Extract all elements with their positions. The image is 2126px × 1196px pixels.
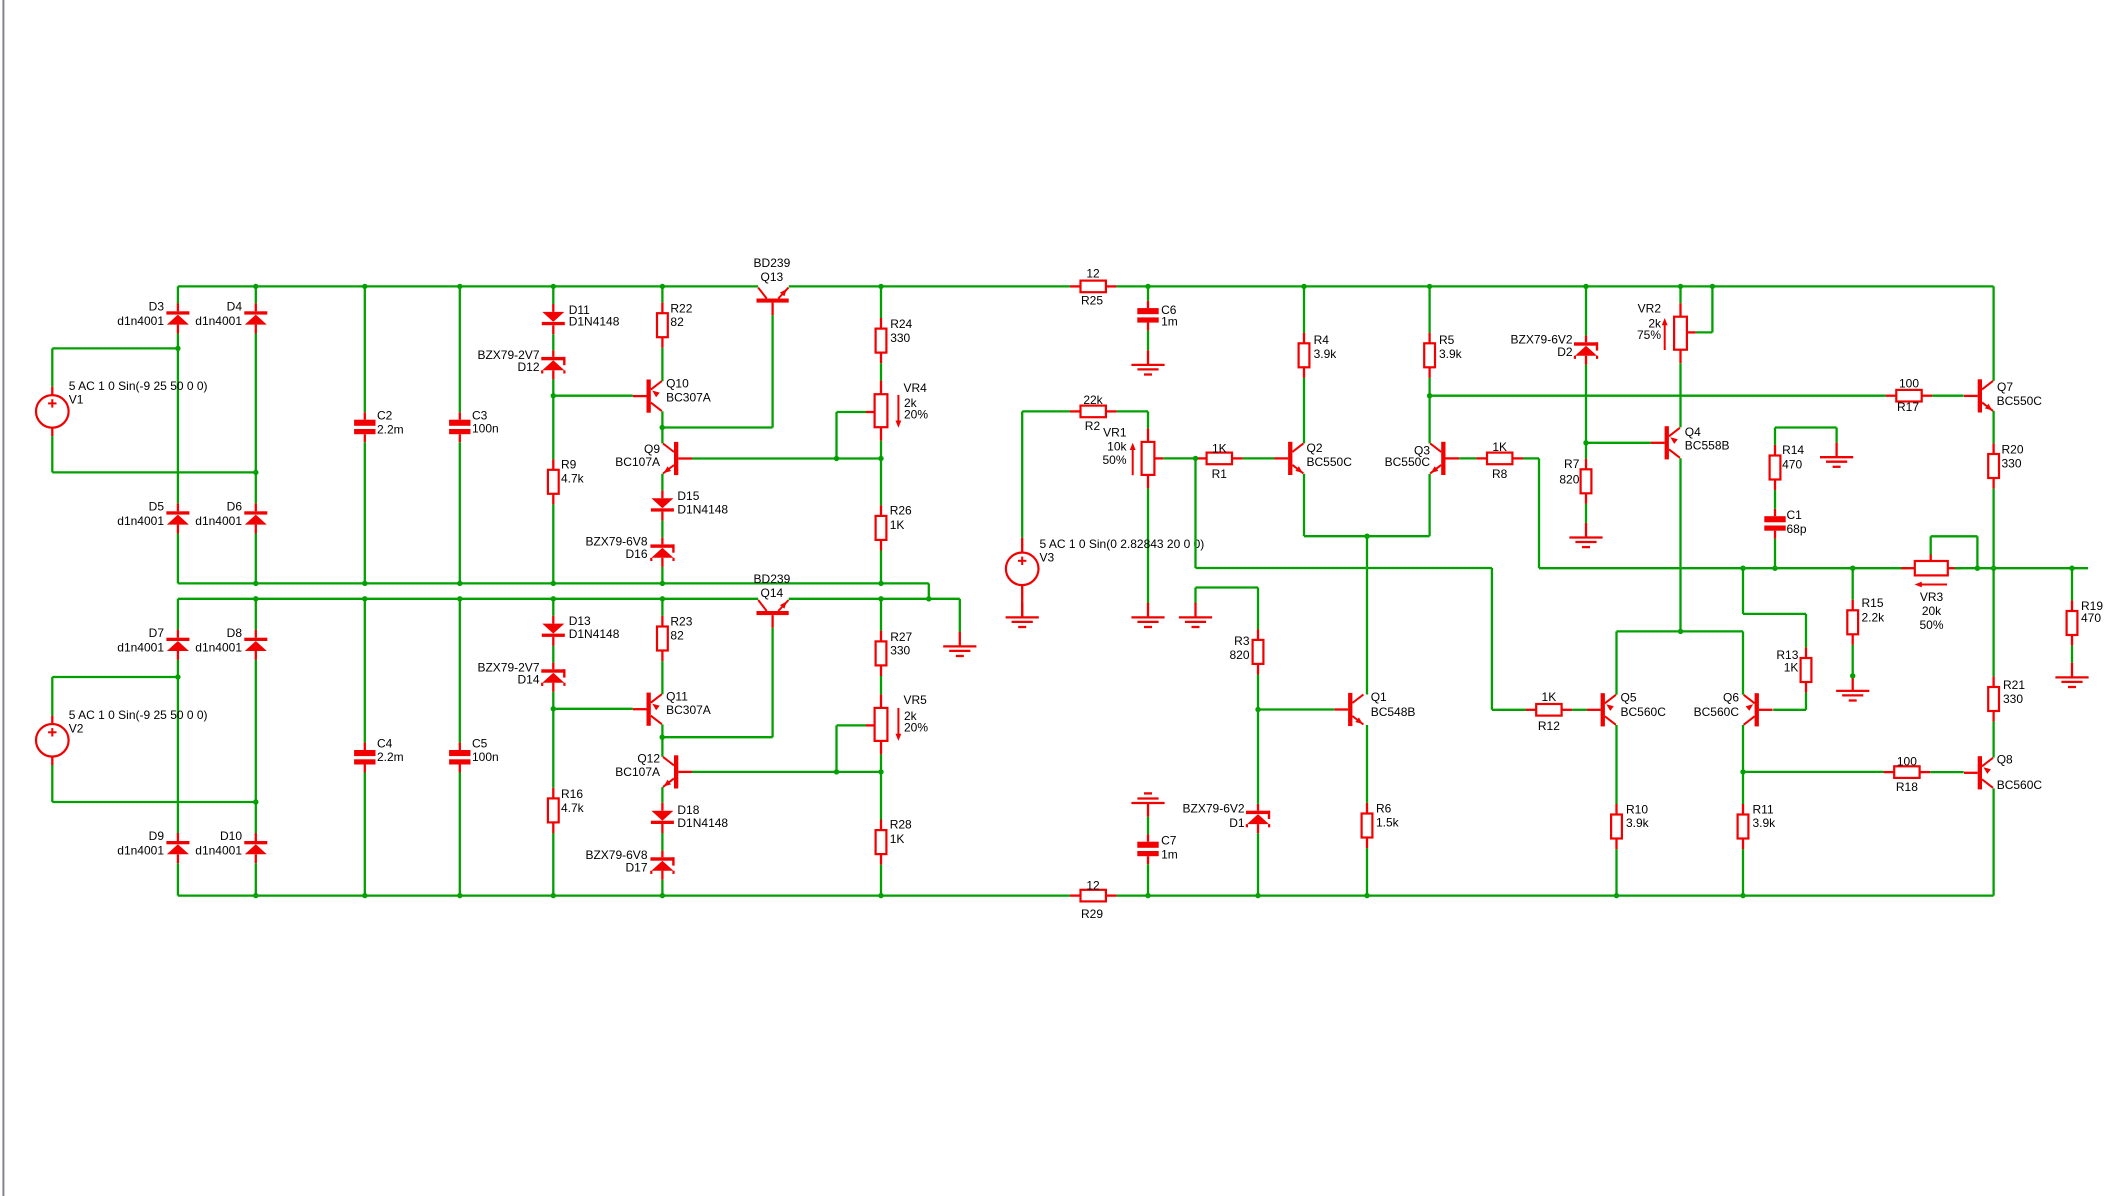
resistor R2 bbox=[1070, 393, 1117, 433]
wire R15 bottom bbox=[1852, 645, 1854, 676]
junction J55 bbox=[1740, 566, 1745, 571]
wire bottom rail right bbox=[1117, 894, 1994, 896]
resistor R24 bbox=[876, 317, 913, 363]
transistor Q1 bbox=[1334, 690, 1415, 726]
wire Q11-junction bbox=[661, 724, 663, 737]
wire drive node drop bbox=[1194, 458, 1196, 568]
svg-text:3.9k: 3.9k bbox=[1439, 347, 1463, 361]
resistor R20 bbox=[1988, 443, 2024, 489]
wire R27 top bbox=[880, 599, 882, 631]
junction J7 bbox=[1145, 284, 1150, 289]
zener D1 bbox=[1183, 802, 1271, 834]
svg-text:R7: R7 bbox=[1564, 457, 1580, 471]
svg-text:BC107A: BC107A bbox=[615, 455, 660, 469]
wire D12-R9 bbox=[552, 379, 554, 459]
svg-text:VR5: VR5 bbox=[904, 693, 928, 707]
svg-text:d1n4001: d1n4001 bbox=[117, 640, 164, 654]
transistor Q11 bbox=[633, 690, 711, 726]
junction J12 bbox=[1710, 284, 1715, 289]
junction J43 bbox=[878, 893, 883, 898]
wire D15-D16 bbox=[661, 521, 663, 538]
svg-text:BC307A: BC307A bbox=[666, 703, 711, 717]
wire VR5 wiper wire bbox=[837, 724, 867, 726]
svg-text:D17: D17 bbox=[625, 861, 647, 875]
resistor R16 bbox=[548, 787, 585, 833]
junction J6 bbox=[878, 284, 883, 289]
wire R13-Q6 base bbox=[1773, 709, 1806, 711]
potentiometer VR1 bbox=[1102, 426, 1163, 489]
resistor R5 bbox=[1424, 333, 1462, 378]
wire R4 top bbox=[1303, 286, 1305, 332]
wire drive to R12 bbox=[1492, 709, 1526, 711]
potentiometer VR3 bbox=[1901, 554, 1961, 633]
svg-text:D1N4148: D1N4148 bbox=[569, 315, 620, 329]
junction J51 bbox=[1583, 440, 1588, 445]
junction J61 bbox=[1740, 769, 1745, 774]
capacitor C5 bbox=[449, 737, 499, 773]
wire R3 hook drop bbox=[1257, 588, 1259, 630]
diode D13 bbox=[542, 614, 620, 646]
svg-text:BC560C: BC560C bbox=[1997, 778, 2043, 792]
wire D11 top bbox=[552, 286, 554, 304]
wire Q6 emitter rise bbox=[1742, 631, 1744, 694]
svg-text:12: 12 bbox=[1086, 879, 1100, 893]
transistor Q14 bbox=[754, 572, 791, 628]
diode D9 bbox=[117, 829, 189, 863]
wire VR4-R26 bbox=[880, 459, 882, 506]
svg-text:BC307A: BC307A bbox=[666, 390, 711, 404]
svg-text:4.7k: 4.7k bbox=[561, 801, 585, 815]
svg-text:D8: D8 bbox=[227, 626, 243, 640]
svg-text:BC550C: BC550C bbox=[1307, 455, 1353, 469]
svg-text:R14: R14 bbox=[1782, 443, 1804, 457]
wire R2 right bbox=[1117, 410, 1148, 412]
svg-text:R26: R26 bbox=[890, 504, 912, 518]
junction J48 bbox=[1740, 893, 1745, 898]
junction J39 bbox=[362, 893, 367, 898]
wire V1 plus drop bbox=[51, 348, 53, 386]
wire VR2 wiper rise bbox=[1711, 286, 1713, 332]
wire V1 minus drop bbox=[51, 436, 53, 472]
svg-text:12: 12 bbox=[1086, 267, 1100, 281]
junction J1 bbox=[253, 284, 258, 289]
transistor Q6 bbox=[1694, 691, 1773, 727]
svg-text:330: 330 bbox=[2003, 692, 2023, 706]
junction J59 bbox=[1991, 566, 1996, 571]
ground R14 ground bbox=[1820, 443, 1853, 467]
svg-text:R17: R17 bbox=[1897, 400, 1919, 414]
diode D18 bbox=[651, 803, 729, 833]
wire D2 top bbox=[1585, 286, 1587, 335]
resistor R19 bbox=[2067, 599, 2104, 646]
ground R7 ground bbox=[1569, 523, 1602, 547]
capacitor C7 bbox=[1137, 834, 1177, 865]
wire node-Q3 collector bbox=[1428, 396, 1430, 444]
wire R22 top bbox=[661, 286, 663, 302]
svg-text:R10: R10 bbox=[1626, 803, 1648, 817]
wire Q9 base wire bbox=[692, 457, 881, 459]
svg-text:R15: R15 bbox=[1862, 596, 1884, 610]
svg-text:Q11: Q11 bbox=[666, 690, 688, 704]
wire V2 plus wire bbox=[52, 676, 178, 678]
ground R3 ground bbox=[1179, 603, 1212, 627]
wire R2 left corner bbox=[1022, 410, 1070, 412]
wire R24-VR4 bbox=[880, 363, 882, 381]
wire R18-Q8 bbox=[1930, 771, 1964, 773]
svg-text:C1: C1 bbox=[1787, 508, 1803, 522]
wire D13-D14 bbox=[552, 646, 554, 663]
zener D2 bbox=[1511, 333, 1599, 365]
wire C7 top link bbox=[1147, 817, 1149, 835]
svg-text:22k: 22k bbox=[1083, 393, 1103, 407]
wire Q6 collector drop bbox=[1742, 725, 1744, 772]
wire R1-Q2 bbox=[1243, 457, 1275, 459]
svg-text:100n: 100n bbox=[472, 750, 499, 764]
diode D10 bbox=[195, 829, 267, 863]
wire mid rail link bbox=[928, 583, 930, 598]
junction J58 bbox=[1975, 566, 1980, 571]
wire output bus bbox=[1539, 567, 1908, 569]
svg-text:20%: 20% bbox=[904, 407, 928, 421]
wire C1-R14 bbox=[1774, 490, 1776, 509]
resistor R15 bbox=[1847, 596, 1885, 645]
wire V3 bottom red bbox=[1021, 593, 1023, 618]
zener D16 bbox=[585, 535, 674, 567]
svg-text:D4: D4 bbox=[227, 300, 243, 314]
wire mirror top bbox=[1617, 630, 1744, 632]
wire VR2-Q4 emitter bbox=[1679, 363, 1681, 427]
wire Q9-D15 bbox=[661, 474, 663, 491]
wire VR5-R28 bbox=[880, 772, 882, 820]
wire R28 bottom bbox=[880, 865, 882, 896]
svg-text:R9: R9 bbox=[561, 458, 577, 472]
svg-text:330: 330 bbox=[890, 643, 910, 657]
svg-text:V2: V2 bbox=[69, 721, 84, 735]
junction J9 bbox=[1427, 284, 1432, 289]
wire R24 top bbox=[880, 286, 882, 318]
wire VR1 bottom bbox=[1147, 488, 1149, 603]
wire V2 plus drop bbox=[51, 677, 53, 716]
svg-text:d1n4001: d1n4001 bbox=[117, 314, 164, 328]
svg-text:R5: R5 bbox=[1439, 333, 1455, 347]
wire Q10-junction bbox=[661, 411, 663, 427]
svg-text:82: 82 bbox=[670, 628, 684, 642]
resistor R18 bbox=[1884, 754, 1931, 794]
svg-text:D7: D7 bbox=[149, 626, 165, 640]
wire C1 bottom link bbox=[1774, 539, 1776, 569]
wire lower top rail right bbox=[789, 598, 960, 600]
svg-text:C4: C4 bbox=[377, 737, 393, 751]
wire R3 hook bbox=[1196, 586, 1259, 588]
svg-text:C2: C2 bbox=[377, 409, 393, 423]
junction J42 bbox=[660, 893, 665, 898]
wire R20 bottom bbox=[1992, 489, 1994, 569]
transistor Q8 bbox=[1964, 753, 2042, 792]
voltage source V2 bbox=[36, 708, 208, 765]
junction J3 bbox=[457, 284, 462, 289]
wire drive wire bbox=[1196, 567, 1492, 569]
junction J41 bbox=[551, 893, 556, 898]
wire D8-D10 column top bbox=[255, 599, 257, 630]
svg-text:470: 470 bbox=[2081, 611, 2101, 625]
wire D1 top bbox=[1257, 710, 1259, 804]
junction J18 bbox=[878, 456, 883, 461]
junction J37 bbox=[878, 769, 883, 774]
zener D14 bbox=[477, 661, 565, 692]
voltage source V3 bbox=[1006, 537, 1204, 594]
wire D2-R7 bbox=[1585, 365, 1587, 459]
wire R2-VR1 bbox=[1147, 411, 1149, 428]
wire R16 bottom bbox=[552, 833, 554, 896]
svg-text:820: 820 bbox=[1559, 473, 1579, 487]
wire top rail to Q7 bbox=[1117, 285, 1994, 287]
wire D4-D6 column top bbox=[255, 286, 257, 303]
resistor R17 bbox=[1886, 377, 1933, 414]
ground R15 ground bbox=[1836, 676, 1869, 700]
wire Q6-R11 bbox=[1742, 772, 1744, 805]
svg-text:R24: R24 bbox=[890, 317, 912, 331]
svg-text:1K: 1K bbox=[1492, 440, 1507, 454]
wire V2 minus drop bbox=[51, 765, 53, 802]
diode D7 bbox=[117, 626, 189, 660]
wire R14 top link bbox=[1775, 426, 1837, 428]
wire R13 bottom bbox=[1805, 693, 1807, 710]
wire feedback wire bbox=[1743, 771, 1884, 773]
resistor R12 bbox=[1526, 690, 1573, 733]
wire D11-D12 bbox=[552, 334, 554, 350]
svg-text:75%: 75% bbox=[1637, 328, 1661, 342]
svg-text:Q13: Q13 bbox=[761, 270, 784, 284]
svg-text:R12: R12 bbox=[1538, 719, 1560, 733]
resistor R9 bbox=[548, 458, 585, 505]
wire Q1 emitter-R6 bbox=[1366, 725, 1368, 803]
svg-text:BD239: BD239 bbox=[754, 572, 791, 586]
capacitor C4 bbox=[354, 737, 404, 773]
wire top rail unregulated bbox=[178, 285, 758, 287]
wire Q11 base wire bbox=[553, 708, 633, 710]
junction J4 bbox=[551, 284, 556, 289]
resistor R4 bbox=[1299, 333, 1338, 378]
svg-text:d1n4001: d1n4001 bbox=[195, 514, 242, 528]
svg-text:1K: 1K bbox=[890, 518, 905, 532]
junction J13 bbox=[175, 346, 180, 351]
wire C2 bottom bbox=[364, 442, 366, 583]
junction J14 bbox=[253, 470, 258, 475]
svg-text:330: 330 bbox=[890, 331, 910, 345]
svg-text:D18: D18 bbox=[677, 803, 699, 817]
wire R23 top bbox=[661, 599, 663, 616]
wire VR1 wiper wire bbox=[1163, 457, 1195, 459]
svg-text:C3: C3 bbox=[472, 408, 488, 422]
power flag C7 flag bbox=[1131, 793, 1164, 816]
junction J8 bbox=[1301, 284, 1306, 289]
wire Q3 base-R8 bbox=[1459, 457, 1476, 459]
resistor R8 bbox=[1476, 440, 1523, 481]
wire D7-D9 column mid bbox=[177, 660, 179, 833]
wire R6 bottom bbox=[1366, 848, 1368, 896]
diode D4 bbox=[195, 300, 267, 334]
junction J20 bbox=[362, 581, 367, 586]
transistor Q5 bbox=[1587, 691, 1666, 727]
wire C7 bottom bbox=[1147, 864, 1149, 895]
wire R14 ground drop bbox=[1835, 428, 1837, 443]
transistor Q12 bbox=[615, 752, 692, 789]
resistor R3 bbox=[1229, 629, 1263, 674]
junction J28 bbox=[551, 596, 556, 601]
wire D13 top bbox=[552, 599, 554, 616]
svg-text:R2: R2 bbox=[1085, 419, 1101, 433]
wire D6 column bottom bbox=[255, 534, 257, 584]
resistor R29 bbox=[1070, 879, 1117, 921]
wire Q12-D18 bbox=[661, 787, 663, 803]
wire C5 top bbox=[459, 599, 461, 743]
voltage source V1 bbox=[36, 379, 208, 436]
svg-text:VR3: VR3 bbox=[1920, 590, 1944, 604]
svg-text:82: 82 bbox=[670, 315, 684, 329]
wire R11 bottom bbox=[1742, 849, 1744, 896]
wire C4 top bbox=[364, 599, 366, 743]
wire C2 top bbox=[364, 286, 366, 412]
wire R13 top drop bbox=[1805, 614, 1807, 648]
wire C5 bottom bbox=[459, 773, 461, 896]
junction J26 bbox=[362, 596, 367, 601]
ground C6 ground bbox=[1131, 350, 1164, 374]
svg-text:330: 330 bbox=[2002, 457, 2022, 471]
potentiometer VR4 bbox=[866, 381, 929, 441]
svg-text:R11: R11 bbox=[1753, 803, 1774, 817]
wire R21 top bbox=[1992, 568, 1994, 676]
svg-text:V3: V3 bbox=[1040, 551, 1055, 565]
svg-text:D2: D2 bbox=[1557, 345, 1573, 359]
svg-text:R25: R25 bbox=[1081, 293, 1103, 307]
resistor R26 bbox=[876, 504, 912, 551]
svg-text:R28: R28 bbox=[890, 817, 912, 831]
junction J29 bbox=[660, 596, 665, 601]
resistor R11 bbox=[1738, 803, 1777, 849]
wire R9 bottom bbox=[552, 504, 554, 583]
svg-text:Q7: Q7 bbox=[1997, 380, 2013, 394]
svg-text:R23: R23 bbox=[670, 615, 692, 629]
wire C6 top bbox=[1147, 286, 1149, 300]
svg-text:d1n4001: d1n4001 bbox=[195, 844, 242, 858]
diode D3 bbox=[117, 300, 189, 334]
resistor R7 bbox=[1559, 457, 1591, 504]
wire C3 bottom bbox=[459, 442, 461, 583]
wire Q1 base wire bbox=[1258, 708, 1334, 710]
junction J19 bbox=[253, 581, 258, 586]
wire VR4 bottom bbox=[880, 441, 882, 459]
resistor R10 bbox=[1611, 803, 1650, 849]
svg-text:R8: R8 bbox=[1492, 467, 1508, 481]
svg-text:R6: R6 bbox=[1376, 802, 1392, 816]
svg-text:Q8: Q8 bbox=[1997, 753, 2013, 767]
junction J5 bbox=[660, 284, 665, 289]
wire R19 bottom bbox=[2071, 646, 2073, 663]
wire D16 bottom bbox=[661, 567, 663, 584]
diode D15 bbox=[651, 489, 729, 520]
junction J40 bbox=[457, 893, 462, 898]
junction J45 bbox=[1255, 893, 1260, 898]
svg-text:68p: 68p bbox=[1787, 522, 1807, 536]
svg-text:Q1: Q1 bbox=[1371, 690, 1387, 704]
wire VR5 wiper drop bbox=[835, 725, 837, 772]
transistor Q2 bbox=[1274, 441, 1352, 475]
wire R17-Q7 bbox=[1932, 395, 1963, 397]
resistor R25 bbox=[1070, 267, 1117, 308]
svg-text:2.2m: 2.2m bbox=[377, 750, 404, 764]
diode D8 bbox=[195, 626, 267, 660]
junction J32 bbox=[175, 674, 180, 679]
wire R8-corner bbox=[1523, 457, 1539, 459]
wire V1 minus wire bbox=[52, 471, 256, 473]
svg-text:D1N4148: D1N4148 bbox=[677, 816, 728, 830]
svg-text:50%: 50% bbox=[1919, 618, 1943, 632]
transistor Q9 bbox=[615, 442, 692, 475]
svg-text:1m: 1m bbox=[1161, 848, 1178, 862]
wire R3 hook stub bbox=[1194, 588, 1196, 604]
svg-text:D3: D3 bbox=[149, 300, 165, 314]
junction J23 bbox=[660, 581, 665, 586]
wire R13 link top bbox=[1743, 613, 1806, 615]
wire Q13 base drop bbox=[771, 315, 773, 427]
junction J11 bbox=[1678, 284, 1683, 289]
svg-text:C7: C7 bbox=[1161, 834, 1177, 848]
transistor Q13 bbox=[754, 256, 791, 315]
junction J36 bbox=[834, 769, 839, 774]
svg-text:VR1: VR1 bbox=[1103, 426, 1127, 440]
wire Q3 emitter drop bbox=[1428, 474, 1430, 536]
wire tail drop bbox=[1366, 536, 1368, 694]
svg-text:5 AC 1 0 Sin(0 2.82843 20 0 0): 5 AC 1 0 Sin(0 2.82843 20 0 0) bbox=[1040, 537, 1205, 551]
junction J15 bbox=[551, 393, 556, 398]
wire lower top rail left bbox=[178, 598, 758, 600]
svg-text:BC548B: BC548B bbox=[1371, 705, 1416, 719]
resistor R23 bbox=[657, 615, 693, 662]
wire R22-Q10 bbox=[661, 348, 663, 381]
junction J33 bbox=[253, 799, 258, 804]
wire Q14 base drop bbox=[771, 628, 773, 737]
svg-text:BC560C: BC560C bbox=[1694, 705, 1740, 719]
wire Q4 collector drop bbox=[1679, 458, 1681, 631]
wire Q5 collector drop bbox=[1615, 725, 1617, 804]
junction J2 bbox=[362, 284, 367, 289]
svg-text:d1n4001: d1n4001 bbox=[195, 640, 242, 654]
junction J62 bbox=[1850, 673, 1855, 678]
wire R21-Q8 bbox=[1992, 722, 1994, 758]
junction J49 bbox=[1193, 456, 1198, 461]
wire VR3 wiper drop bbox=[1976, 536, 1978, 568]
wire top rail regulated bbox=[789, 285, 1070, 287]
svg-text:R3: R3 bbox=[1234, 634, 1250, 648]
svg-text:Q12: Q12 bbox=[637, 752, 660, 766]
svg-text:1K: 1K bbox=[890, 832, 905, 846]
wire R26 bottom bbox=[880, 551, 882, 584]
wire Q7 emitter-R20 bbox=[1992, 411, 1994, 444]
svg-text:d1n4001: d1n4001 bbox=[117, 844, 164, 858]
resistor R13 bbox=[1776, 647, 1811, 692]
wire C6 bottom bbox=[1147, 331, 1149, 351]
capacitor C3 bbox=[449, 408, 499, 442]
svg-text:R1: R1 bbox=[1212, 467, 1228, 481]
zener D12 bbox=[477, 348, 565, 379]
wire bottom rail left bbox=[178, 894, 1070, 896]
ground VR1 ground bbox=[1131, 603, 1164, 627]
wire V2 minus wire bbox=[52, 801, 256, 803]
wire Q4 base wire bbox=[1586, 442, 1651, 444]
wire VR4 wiper wire bbox=[837, 411, 867, 413]
wire R7 bottom bbox=[1585, 504, 1587, 523]
junction J60 bbox=[2069, 566, 2074, 571]
